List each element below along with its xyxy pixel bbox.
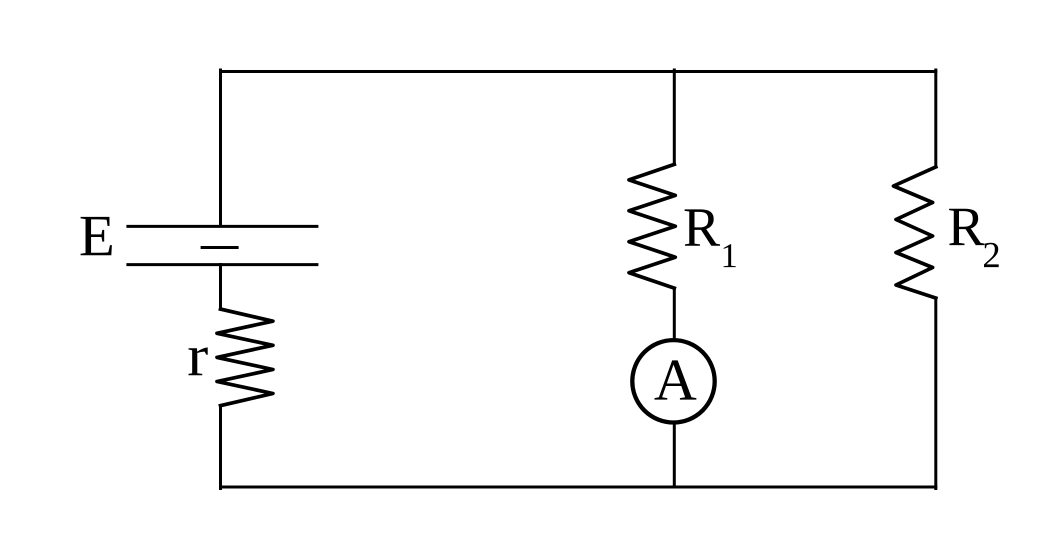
wire: bottom rail: [221, 486, 936, 489]
wire: left rail from top rail down to battery top plate: [219, 70, 222, 225]
label E (emf source): [81, 217, 112, 255]
label R1: [685, 209, 736, 267]
label A (ammeter letter): [654, 360, 696, 399]
resistor r: [217, 309, 273, 406]
battery E: top plate: [128, 225, 317, 228]
wire: resistor r to bottom rail: [219, 406, 222, 489]
wire: resistor R2 to bottom rail: [934, 298, 937, 489]
label r (internal resistance): [189, 347, 208, 375]
label R2: [949, 209, 999, 267]
wire: top rail to resistor R2: [934, 70, 937, 167]
battery E: minus polarity sign: [202, 246, 237, 249]
wire: top rail to resistor R1: [673, 70, 676, 164]
wire: ammeter to bottom rail: [673, 423, 676, 487]
wire: battery bottom plate to resistor r: [219, 265, 222, 310]
resistor R1: [629, 164, 675, 288]
wire: resistor R1 to ammeter: [673, 288, 676, 340]
resistor R2: [894, 167, 936, 298]
battery E: bottom plate: [128, 263, 317, 266]
ammeter A: circle body: [632, 340, 714, 422]
wire: top rail: [221, 70, 936, 73]
